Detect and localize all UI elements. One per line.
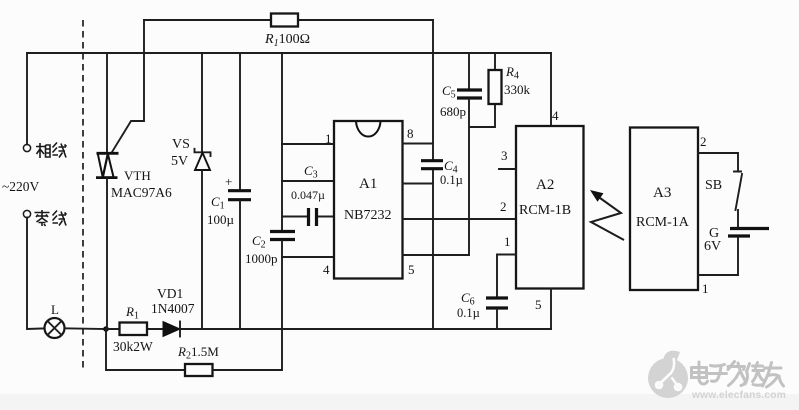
zener diode VS 5V xyxy=(195,149,211,170)
terminal phase (xiang xian) xyxy=(23,144,30,151)
label 0.1u C4 xyxy=(440,173,463,187)
svg-text:2: 2 xyxy=(500,199,507,214)
wire: A1 pin 2 long wire to A2 xyxy=(403,218,517,220)
label C3 xyxy=(304,163,318,181)
svg-text:RCM-1B: RCM-1B xyxy=(519,203,571,218)
bottom gray band xyxy=(0,394,799,410)
pin 8 label A1 xyxy=(407,126,414,141)
resistor R2 1.5M xyxy=(185,364,213,376)
label 330k xyxy=(504,82,531,97)
wire: lamp to junction xyxy=(64,327,106,330)
wire: main VDD bus xyxy=(27,52,551,54)
svg-text:MAC97A6: MAC97A6 xyxy=(111,185,172,200)
svg-text:3: 3 xyxy=(501,148,508,163)
label 30k2W xyxy=(113,339,153,354)
svg-text:1: 1 xyxy=(325,131,332,146)
label 680p xyxy=(440,104,466,119)
wire: R1/C4 vertical line xyxy=(432,20,434,329)
pin 5 label A2 xyxy=(535,297,542,312)
label C2 xyxy=(252,233,266,251)
label A1 xyxy=(359,176,377,192)
svg-text:6V: 6V xyxy=(704,239,721,254)
lamp L xyxy=(45,318,65,338)
wire: top gate wire from R1 xyxy=(144,19,433,21)
svg-text:A3: A3 xyxy=(653,185,671,201)
wire: triac to bottom junction xyxy=(106,179,108,329)
svg-text:NB7232: NB7232 xyxy=(344,208,391,223)
svg-text:C3: C3 xyxy=(304,163,318,181)
pin 1 label A3 xyxy=(702,281,709,296)
label R2 1.5M xyxy=(177,344,219,362)
label 100u xyxy=(207,212,235,227)
svg-text:2: 2 xyxy=(700,134,707,149)
svg-text:R1100Ω: R1100Ω xyxy=(264,32,310,49)
wire: C5 bottom to R4 node and down to pin5 wire xyxy=(469,100,495,256)
pin 4 label A2 xyxy=(552,108,559,123)
svg-text:1: 1 xyxy=(702,281,709,296)
svg-text:A2: A2 xyxy=(536,177,554,193)
svg-text:VD1: VD1 xyxy=(157,286,183,301)
resistor R1 100ohm (top) xyxy=(271,14,298,27)
wire: A2 pin 3 stub xyxy=(499,168,516,170)
wire: A1 right second pin to C4 line xyxy=(403,183,434,185)
wire: zener branch from bus xyxy=(201,53,203,152)
wire: R2 branch xyxy=(106,329,282,370)
svg-text:VS: VS xyxy=(172,137,190,152)
dashed mains separation line xyxy=(82,20,84,370)
resistor R1 30k 2W (bottom) xyxy=(120,323,148,336)
label 1N4007 xyxy=(151,301,195,316)
capacitor C1 100u electrolytic xyxy=(228,191,251,200)
wire: bottom ground wire xyxy=(106,328,551,330)
label 0.1u C6 xyxy=(457,306,480,320)
wire: R4 top to bus xyxy=(494,53,496,70)
svg-text:C1: C1 xyxy=(211,194,225,212)
wire: C1 to bottom xyxy=(239,201,241,329)
pin 2 label A2 xyxy=(500,199,507,214)
capacitor C3 0.047u xyxy=(309,208,317,226)
capacitor C4 0.1u xyxy=(421,161,443,169)
label VS xyxy=(172,137,190,152)
label 0.047u xyxy=(291,188,325,202)
label plus sign xyxy=(225,174,232,189)
svg-text:R1: R1 xyxy=(125,304,139,322)
label ~220V xyxy=(2,179,40,194)
svg-text:330k: 330k xyxy=(504,82,531,97)
pin 5 label A1 xyxy=(408,262,415,277)
triac VTH xyxy=(96,153,119,177)
label SB xyxy=(705,178,722,193)
wire: bus elbow down to A2 pin 4 xyxy=(550,53,552,126)
svg-text:30k2W: 30k2W xyxy=(113,339,153,354)
wire: A1 pin 4 horizontal xyxy=(282,256,334,258)
wire: phase drop xyxy=(26,53,28,145)
label R1 100 ohm xyxy=(264,32,310,49)
wire: zener to bottom xyxy=(201,170,203,329)
label 5V xyxy=(171,154,188,169)
wire: A3 pin 2 to switch xyxy=(698,153,738,171)
svg-text:1N4007: 1N4007 xyxy=(151,301,195,316)
op-amp U1 / IC A1 NB7232 box xyxy=(334,121,403,279)
resistor R4 330k xyxy=(489,70,502,104)
svg-text:RCM-1A: RCM-1A xyxy=(636,215,690,230)
label C1 xyxy=(211,194,225,212)
wire: A2 pin 5 drop to bottom wire xyxy=(550,289,552,330)
wire: A1 third left pin with C3 in series xyxy=(282,216,334,218)
label VTH xyxy=(124,168,151,183)
wire: C6 to bottom wire xyxy=(496,309,498,329)
wire: C5 branch from bus xyxy=(468,53,470,89)
svg-text:1: 1 xyxy=(504,234,511,249)
svg-text:SB: SB xyxy=(705,178,722,193)
svg-text:5: 5 xyxy=(535,297,542,312)
wire: A2 pin 1 stub and C6 drop xyxy=(497,255,516,298)
RF link zigzag arrow xyxy=(590,190,624,240)
svg-text:8: 8 xyxy=(407,126,414,141)
svg-text:R21.5M: R21.5M xyxy=(177,344,219,362)
pin 4 label A1 xyxy=(323,262,330,277)
svg-text:www.elecfans.com: www.elecfans.com xyxy=(691,390,786,401)
wire: A1 pin 8 to C4 line xyxy=(403,143,434,145)
label R4 xyxy=(505,64,519,82)
IC A2 RCM-1B box xyxy=(516,126,584,289)
capacitor C5 680p xyxy=(457,90,482,98)
label C5 xyxy=(442,83,456,101)
svg-text:0.047µ: 0.047µ xyxy=(291,188,325,202)
label xiangxian (phase line) xyxy=(36,143,67,159)
wire: A1 pin 1 horizontal xyxy=(282,143,334,145)
svg-text:5: 5 xyxy=(408,262,415,277)
svg-text:100µ: 100µ xyxy=(207,212,235,227)
watermark logo circle xyxy=(648,351,688,398)
pin 1 label A1 xyxy=(325,131,332,146)
watermark url xyxy=(691,390,786,401)
svg-text:C6: C6 xyxy=(461,290,475,308)
capacitor C2 1000p xyxy=(270,232,295,240)
pin 1 label A2 xyxy=(504,234,511,249)
wire: triac drop from bus xyxy=(106,53,108,153)
svg-text:1000p: 1000p xyxy=(245,251,278,266)
label RCM-1B xyxy=(519,203,571,218)
label VD1 xyxy=(157,286,183,301)
label lingxian (neutral line) xyxy=(35,210,67,226)
capacitor C6 0.1u xyxy=(486,298,508,308)
svg-text:C2: C2 xyxy=(252,233,266,251)
label L xyxy=(51,302,59,317)
svg-text:680p: 680p xyxy=(440,104,466,119)
watermark text dianzifashaoyou xyxy=(692,362,784,388)
svg-text:~220V: ~220V xyxy=(2,179,40,194)
label MAC97A6 xyxy=(111,185,172,200)
pin 3 label A2 xyxy=(501,148,508,163)
svg-text:4: 4 xyxy=(323,262,330,277)
node junction dot xyxy=(103,326,109,332)
wire: ladder vertical below C2 to bottom wire xyxy=(281,241,283,329)
label A3 xyxy=(653,185,671,201)
label A2 xyxy=(536,177,554,193)
wire: C1 branch from bus xyxy=(239,53,241,189)
battery G 6V xyxy=(728,229,769,237)
svg-text:VTH: VTH xyxy=(124,168,151,183)
pin 2 label A3 xyxy=(700,134,707,149)
diode VD1 1N4007 xyxy=(163,322,180,337)
svg-text:+: + xyxy=(225,174,232,189)
svg-text:4: 4 xyxy=(552,108,559,123)
label RCM-1A xyxy=(636,215,690,230)
label G xyxy=(709,226,719,241)
svg-text:L: L xyxy=(51,302,59,317)
wire: gate drop and diagonal to triac gate xyxy=(112,20,144,152)
wire: neutral drop to lamp xyxy=(27,218,45,330)
wire: A1 pin 5 wire to C5 node xyxy=(403,254,470,256)
label NB7232 xyxy=(344,208,391,223)
label 6V xyxy=(704,239,721,254)
wire: battery to A3 pin 1 xyxy=(698,238,738,275)
label C4 xyxy=(444,158,458,176)
svg-text:C5: C5 xyxy=(442,83,456,101)
wire: switch to battery xyxy=(737,210,739,227)
svg-text:5V: 5V xyxy=(171,154,188,169)
label C6 xyxy=(461,290,475,308)
svg-text:0.1µ: 0.1µ xyxy=(440,173,463,187)
terminal neutral (ling xian) xyxy=(23,210,30,217)
wire: ladder vertical from bus to C2 xyxy=(281,53,283,230)
wire: A1 second left pin horizontal xyxy=(282,180,334,182)
svg-text:A1: A1 xyxy=(359,176,377,192)
svg-text:0.1µ: 0.1µ xyxy=(457,306,480,320)
svg-text:R4: R4 xyxy=(505,64,519,82)
switch SB xyxy=(734,172,742,211)
label 1000p xyxy=(245,251,278,266)
label R1 bottom xyxy=(125,304,139,322)
IC A3 RCM-1A box xyxy=(630,128,698,291)
